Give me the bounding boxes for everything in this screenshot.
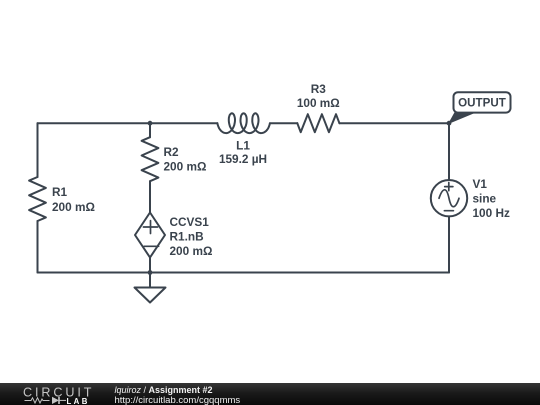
svg-text:200 mΩ: 200 mΩ xyxy=(170,244,213,258)
svg-text:200 mΩ: 200 mΩ xyxy=(164,160,207,174)
inductor L1 xyxy=(217,113,270,133)
wire top horizontal left segment xyxy=(38,122,218,124)
OUTPUT flag box xyxy=(454,92,511,112)
svg-text:lquiroz / Assignment #2: lquiroz / Assignment #2 xyxy=(115,385,213,395)
V1 minus sign xyxy=(444,210,453,212)
V1 sine wave xyxy=(439,190,459,207)
svg-text:OUTPUT: OUTPUT xyxy=(458,97,506,110)
wire CCVS1 bottom lead to bottom rail xyxy=(149,258,151,273)
logo resistor zigzag xyxy=(25,398,50,403)
logo diode xyxy=(52,397,59,404)
ground symbol xyxy=(135,288,166,303)
CCVS1 plus sign xyxy=(143,221,157,234)
CCVS1 dependent source diamond xyxy=(135,213,165,258)
svg-text:V1: V1 xyxy=(473,177,488,191)
svg-text:100 mΩ: 100 mΩ xyxy=(297,96,340,110)
wire OUTPUT node down to V1 xyxy=(448,123,450,180)
junction node dot (bottom middle) xyxy=(148,270,153,275)
svg-text:159.2 µH: 159.2 µH xyxy=(219,152,267,166)
resistor R3 xyxy=(297,114,339,132)
wire bottom rail xyxy=(38,272,450,274)
footer bar xyxy=(0,383,540,405)
OUTPUT flag pointer xyxy=(449,112,477,124)
wire ground stub xyxy=(149,273,151,288)
wire R2 top lead xyxy=(149,123,151,137)
wire V1 bottom lead xyxy=(448,216,450,272)
junction node dot (top middle) xyxy=(148,121,153,126)
svg-text:R1.nB: R1.nB xyxy=(170,229,204,243)
junction node dot OUTPUT xyxy=(447,121,452,126)
V1 plus sign xyxy=(445,183,453,191)
wire R1 bottom lead xyxy=(37,221,39,273)
svg-text:L1: L1 xyxy=(236,138,250,152)
wire left vertical (node A to bottom) top lead of R1 xyxy=(37,123,39,177)
wire between L1 and R3 xyxy=(271,122,298,124)
svg-text:200 mΩ: 200 mΩ xyxy=(52,200,95,214)
CCVS1 minus sign xyxy=(144,245,159,247)
svg-text:http://circuitlab.com/cgqqmms: http://circuitlab.com/cgqqmms xyxy=(115,395,241,405)
svg-text:sine: sine xyxy=(473,192,497,206)
svg-text:100 Hz: 100 Hz xyxy=(473,206,510,220)
svg-text:R3: R3 xyxy=(311,82,327,96)
svg-text:LAB: LAB xyxy=(67,397,90,405)
svg-text:R1: R1 xyxy=(52,185,68,199)
resistor R2 xyxy=(142,137,159,181)
svg-text:R2: R2 xyxy=(164,145,180,159)
wire top horizontal right segment to OUTPUT node xyxy=(339,122,449,124)
voltage source V1 circle xyxy=(431,180,467,216)
wire R2 to CCVS1 xyxy=(149,181,151,212)
resistor R1 xyxy=(29,177,46,221)
svg-text:CCVS1: CCVS1 xyxy=(170,215,210,229)
